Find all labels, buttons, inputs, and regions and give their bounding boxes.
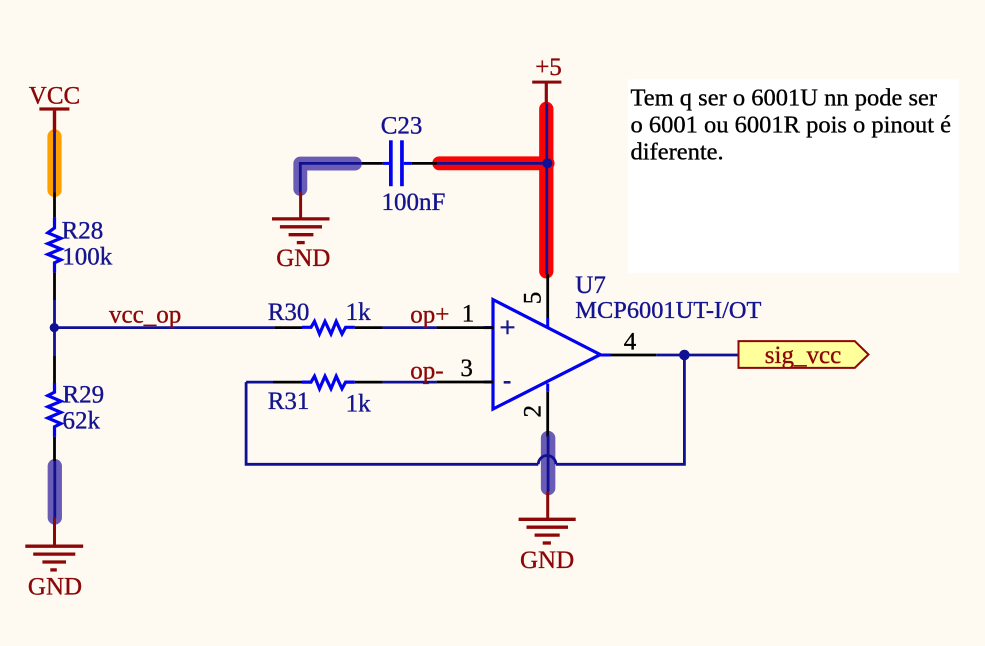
- svg-text:100k: 100k: [62, 244, 112, 271]
- svg-text:1k: 1k: [346, 391, 372, 418]
- svg-text:GND: GND: [28, 574, 82, 601]
- svg-text:3: 3: [460, 355, 473, 382]
- svg-text:100nF: 100nF: [382, 189, 446, 216]
- svg-text:2: 2: [519, 405, 546, 418]
- svg-text:R29: R29: [63, 382, 105, 409]
- svg-text:GND: GND: [520, 547, 574, 574]
- svg-text:Tem q ser o 6001U nn pode ser: Tem q ser o 6001U nn pode ser: [631, 85, 938, 112]
- svg-text:sig_vcc: sig_vcc: [765, 342, 841, 369]
- svg-text:62k: 62k: [63, 408, 101, 435]
- svg-text:4: 4: [624, 329, 637, 356]
- svg-text:1k: 1k: [346, 299, 372, 326]
- svg-text:R31: R31: [268, 388, 310, 415]
- svg-text:GND: GND: [276, 245, 330, 272]
- svg-text:op-: op-: [410, 358, 443, 385]
- svg-text:5: 5: [519, 292, 546, 305]
- svg-text:R30: R30: [268, 299, 310, 326]
- svg-text:R28: R28: [62, 217, 104, 244]
- svg-text:VCC: VCC: [29, 83, 80, 110]
- svg-text:1: 1: [462, 300, 475, 327]
- svg-text:o 6001 ou 6001R pois o pinout: o 6001 ou 6001R pois o pinout é: [631, 112, 952, 139]
- svg-text:MCP6001UT-I/OT: MCP6001UT-I/OT: [575, 297, 761, 324]
- svg-text:U7: U7: [575, 272, 606, 299]
- svg-text:op+: op+: [410, 302, 449, 329]
- svg-text:+5: +5: [535, 54, 562, 81]
- svg-text:diferente.: diferente.: [631, 139, 724, 166]
- svg-text:C23: C23: [381, 113, 423, 140]
- svg-text:vcc_op: vcc_op: [109, 302, 181, 329]
